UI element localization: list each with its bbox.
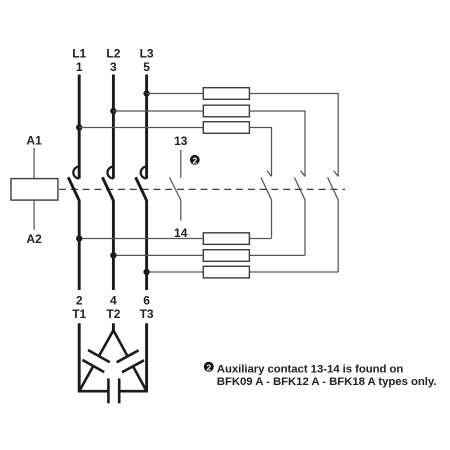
resistor R4	[203, 233, 249, 245]
svg-text:T3: T3	[140, 307, 154, 321]
svg-text:4: 4	[110, 293, 117, 307]
auxiliary contact 13-14 upper terminal	[180, 150, 182, 178]
pre-charge contact 3 tick	[334, 171, 338, 177]
pre-charge contact 1 tick	[267, 171, 271, 177]
main contact pole 1 blade and lower terminal	[68, 177, 79, 290]
wire T1 stub to capacitor bank	[78, 323, 81, 392]
node junction dot on T2 line	[110, 252, 116, 258]
pre-charge contact 2 blade and lower terminal	[294, 177, 305, 255]
svg-text:2: 2	[206, 362, 211, 372]
capacitor C3 (T1-T3 bottom side) wires	[79, 390, 107, 393]
wire resistor R3 to pre-charge contact 1	[249, 128, 271, 177]
node L2	[106, 47, 120, 74]
node T3	[140, 293, 154, 321]
svg-text:5: 5	[143, 60, 150, 74]
svg-text:T2: T2	[106, 307, 120, 321]
wire pre-charge contact 1 to resistor R4	[249, 238, 271, 240]
node T1	[72, 293, 86, 321]
wire resistor R6 to T3 junction	[147, 271, 204, 273]
wire L2 upper terminal	[112, 75, 115, 179]
capacitor C1 plates	[88, 350, 110, 362]
wire L3 dot to resistor R1	[147, 93, 204, 95]
resistor R3	[203, 122, 249, 134]
wire L3 upper terminal	[145, 75, 148, 179]
resistor R2	[203, 105, 249, 117]
main contact pole 2 hook	[107, 167, 113, 179]
resistor R5	[203, 250, 249, 262]
svg-text:L1: L1	[72, 47, 86, 61]
wire resistor R1 to pre-charge contact 3	[249, 94, 338, 177]
svg-text:BFK09 A - BFK12 A - BFK18 A ty: BFK09 A - BFK12 A - BFK18 A types only.	[217, 376, 437, 388]
note marker 2 (footnote)	[204, 362, 214, 373]
svg-text:2: 2	[76, 293, 83, 307]
pre-charge contact 2 tick	[301, 171, 305, 177]
node junction dot on L1	[76, 124, 82, 130]
node T2	[106, 293, 120, 321]
svg-text:L2: L2	[106, 47, 120, 61]
wire mechanical linkage (dashed)	[59, 188, 345, 190]
capacitor C2 (T2-T3 side) wires	[113, 330, 127, 356]
svg-text:3: 3	[110, 60, 117, 74]
wire T3 stub to capacitor bank	[145, 323, 148, 392]
coil U1	[11, 179, 58, 201]
wire A1 to coil	[33, 148, 35, 179]
wire resistor R2 to pre-charge contact 2	[249, 111, 305, 176]
wire L2 dot to resistor R2	[113, 110, 203, 112]
wire coil to A2	[33, 200, 35, 230]
svg-text:Auxiliary contact 13-14 is fou: Auxiliary contact 13-14 is found on	[217, 363, 404, 375]
node L1	[72, 47, 86, 74]
node junction dot on L2	[110, 108, 116, 114]
wire resistor R5 to T2 junction	[113, 254, 203, 256]
main contact pole 3 blade and lower terminal	[136, 177, 147, 290]
auxiliary contact 13-14 blade and lower terminal	[170, 177, 181, 220]
note marker 2 (schematic)	[190, 155, 200, 165]
main contact pole 1 hook	[73, 167, 79, 179]
wire pre-charge contact 3 to resistor R6	[249, 271, 338, 273]
node junction dot on T3 line	[143, 269, 149, 275]
svg-text:A2: A2	[26, 232, 42, 246]
pre-charge contact 1 blade and lower terminal	[261, 177, 272, 238]
node L3	[140, 47, 154, 74]
svg-text:L3: L3	[140, 47, 154, 61]
wire L1 upper terminal	[78, 75, 81, 179]
svg-text:13: 13	[174, 134, 188, 148]
wire pre-charge contact 2 to resistor R5	[249, 254, 305, 256]
main contact pole 2 blade and lower terminal	[102, 177, 113, 290]
svg-text:T1: T1	[72, 307, 86, 321]
capacitor C2 plates	[117, 350, 139, 362]
pre-charge contact 3 blade and lower terminal	[328, 177, 339, 272]
resistor R1	[203, 88, 249, 100]
capacitor C1 (T1-T2 side) wires	[99, 330, 114, 356]
wire L1 dot to resistor R3	[79, 127, 203, 129]
resistor R6	[203, 266, 249, 278]
svg-text:1: 1	[76, 60, 83, 74]
wire resistor R4 to T1 junction	[79, 238, 203, 240]
svg-text:6: 6	[143, 293, 150, 307]
svg-text:A1: A1	[26, 134, 42, 148]
svg-text:2: 2	[192, 155, 197, 165]
main contact pole 3 hook	[141, 167, 147, 179]
node junction dot on L3	[143, 90, 149, 96]
capacitor C3 plates	[107, 378, 110, 403]
node junction dot on T1 line	[76, 235, 82, 241]
wire T2 stub to capacitor bank	[112, 323, 115, 331]
